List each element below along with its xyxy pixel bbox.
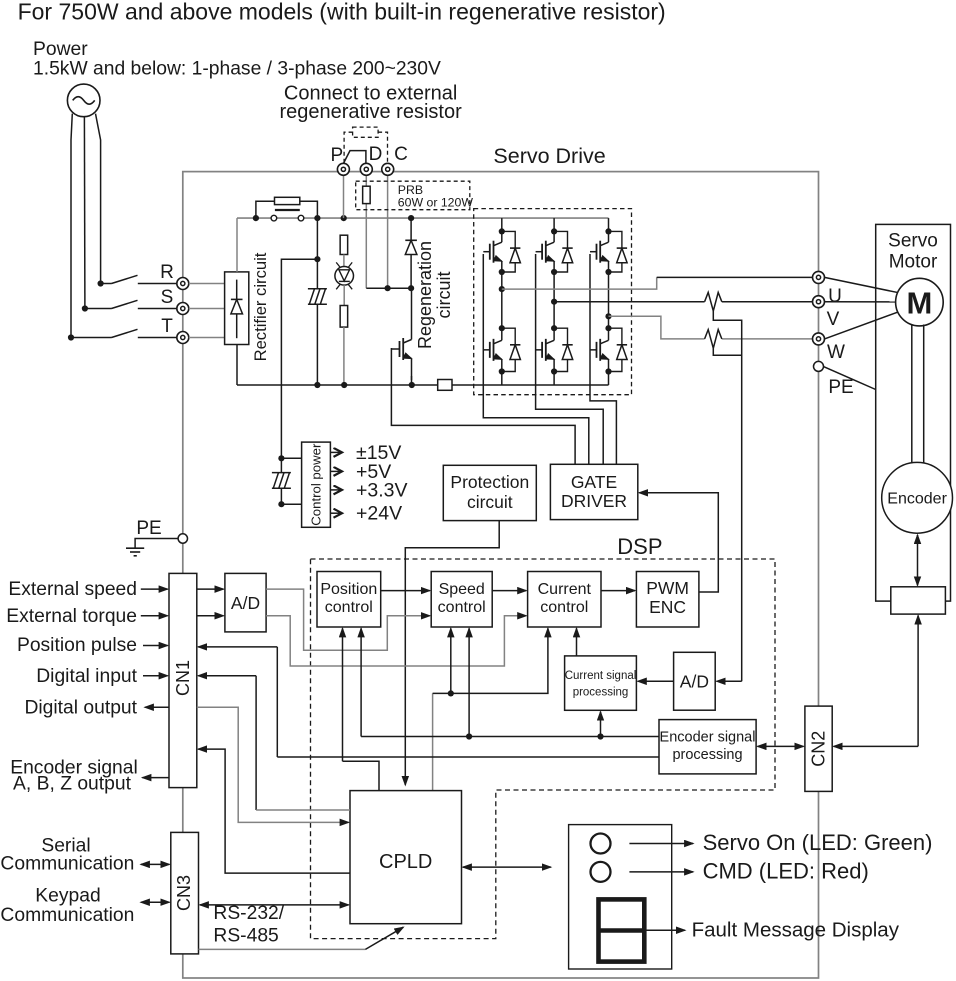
transistor upper IGBT leg 2 xyxy=(536,231,555,272)
relay contact b xyxy=(298,215,304,221)
diode upper leg 3 xyxy=(609,231,622,248)
svg-text:DSP: DSP xyxy=(617,534,662,559)
wire rectifier bottom riser xyxy=(236,345,238,386)
control power box xyxy=(302,442,331,527)
double arrow encoder proc - CN2 xyxy=(758,745,804,747)
wire CN1 to A/D row1 xyxy=(197,588,224,590)
wire inverter leg 3 top xyxy=(608,218,610,231)
arrow speed-current xyxy=(492,590,526,592)
wire encoder feedback main xyxy=(361,736,659,738)
svg-text:Servo Drive: Servo Drive xyxy=(493,144,605,168)
wire CN1 to A/D row2 xyxy=(197,615,224,617)
junction bus bleeder xyxy=(341,382,347,388)
terminal V xyxy=(813,296,825,308)
switch phase T xyxy=(68,334,74,340)
svg-text:Position pulse: Position pulse xyxy=(17,635,137,656)
wire C column xyxy=(387,175,389,288)
terminal W xyxy=(813,333,825,345)
gate driver box xyxy=(550,464,637,519)
svg-text:RS-232/: RS-232/ xyxy=(213,903,284,924)
terminal R xyxy=(177,278,189,290)
svg-text:+24V: +24V xyxy=(356,503,402,525)
svg-text:A, B, Z output: A, B, Z output xyxy=(13,774,132,795)
protection circuit box xyxy=(443,465,536,520)
svg-text:D: D xyxy=(369,144,383,165)
wire fb to current signal processing xyxy=(600,712,602,737)
diode lower leg 2 xyxy=(554,328,567,345)
external regenerative resistor (dashed) xyxy=(353,127,379,137)
current control box xyxy=(528,572,601,628)
svg-text:Rectifier circuit: Rectifier circuit xyxy=(251,252,270,361)
wire D column xyxy=(365,175,367,186)
resistor bleeder lower xyxy=(340,306,348,328)
terminal S xyxy=(177,303,189,315)
svg-text:Current: Current xyxy=(538,581,592,598)
wire fb to speed control xyxy=(468,628,470,736)
servo motor box xyxy=(876,224,951,601)
wire P column xyxy=(343,175,345,218)
LED CMD xyxy=(591,862,611,882)
relay contact bar xyxy=(275,209,300,211)
svg-text:GATE: GATE xyxy=(571,472,617,492)
wire xyxy=(343,285,345,305)
wire phase U xyxy=(502,277,657,289)
junction bus cap xyxy=(314,382,320,388)
transistor regen IGBT xyxy=(391,318,411,380)
wire phase node leg 3 xyxy=(608,272,610,328)
terminal PE output xyxy=(814,361,824,371)
wire phase V xyxy=(554,301,705,303)
wire xyxy=(280,458,282,472)
svg-text:CN1: CN1 xyxy=(173,660,193,696)
svg-text:U: U xyxy=(828,286,842,307)
svg-text:A/D: A/D xyxy=(680,672,709,692)
svg-text:Speed: Speed xyxy=(439,581,485,598)
svg-text:PWM: PWM xyxy=(646,578,689,598)
wire regen IGBT emitter to bus xyxy=(411,376,413,385)
svg-text:Power: Power xyxy=(33,39,88,60)
double arrow CPLD to LED block xyxy=(463,866,551,868)
wire CPLD to speed/current command xyxy=(432,693,434,790)
switch phase R xyxy=(98,280,104,286)
svg-text:Communication: Communication xyxy=(0,905,134,926)
wire leg 1 to DC- bus xyxy=(501,372,503,386)
terminal T xyxy=(177,332,189,344)
svg-text:Digital input: Digital input xyxy=(36,666,137,687)
wire PE xyxy=(135,539,183,548)
wire leg 3 to DC- bus xyxy=(608,372,610,386)
ground symbol xyxy=(126,547,144,549)
seven segment display xyxy=(599,899,645,961)
arrow servo on xyxy=(629,843,693,845)
svg-text:regenerative resistor: regenerative resistor xyxy=(279,101,462,123)
junction fb current xyxy=(597,733,603,739)
P-D jumper wire xyxy=(343,151,366,164)
wire D-C-diode link xyxy=(366,287,411,289)
svg-text:Digital output: Digital output xyxy=(24,698,137,719)
svg-text:W: W xyxy=(827,342,845,363)
wire xyxy=(410,218,412,240)
svg-text:Encoder: Encoder xyxy=(887,491,947,508)
diode upper leg 1 xyxy=(502,231,515,248)
wire CN2 to motor encoder connector xyxy=(834,745,919,747)
arrow sensor to A/D xyxy=(717,680,742,682)
svg-text:circuit: circuit xyxy=(434,271,454,318)
wire CPLD to position control xyxy=(342,628,344,761)
motor M circle xyxy=(896,278,944,326)
wire inverter leg 2 top xyxy=(553,218,555,231)
gray wire A/D out1 to speed control xyxy=(266,589,430,650)
AC power source xyxy=(67,84,100,117)
svg-text:control: control xyxy=(438,599,486,616)
rectifier circuit box xyxy=(225,272,249,345)
PE node circle on edge xyxy=(178,534,187,543)
resistor bleeder upper xyxy=(340,235,348,254)
svg-text:DRIVER: DRIVER xyxy=(561,491,627,511)
A/D left box xyxy=(225,573,266,632)
svg-text:V: V xyxy=(827,309,840,330)
arrow CMD xyxy=(629,871,693,873)
position control box xyxy=(317,572,381,628)
current signal processing box xyxy=(565,656,637,710)
output +24V xyxy=(330,512,341,514)
rectifier diode symbol xyxy=(231,298,243,300)
svg-text:processing: processing xyxy=(672,747,742,763)
arrow current-pwm xyxy=(601,590,635,592)
wire xyxy=(281,457,301,459)
wire gate leg3 xyxy=(590,254,616,464)
wire W to motor xyxy=(825,312,899,339)
transistor lower IGBT leg 1 xyxy=(483,328,502,371)
svg-text:Regeneration: Regeneration xyxy=(415,241,435,349)
DSP dashed region xyxy=(311,559,776,939)
wire phase node leg 2 xyxy=(553,272,555,328)
wire leg 2 to DC- bus xyxy=(553,372,555,386)
junction bus regen emitter xyxy=(409,382,415,388)
junction bus-P xyxy=(341,215,347,221)
switch phase S xyxy=(82,305,88,311)
svg-text:circuit: circuit xyxy=(467,492,513,512)
CN1 box xyxy=(169,573,197,787)
svg-text:M: M xyxy=(906,286,932,321)
wire protection to CPLD xyxy=(405,521,499,785)
arrow position pulse into CN1 xyxy=(198,646,277,648)
svg-text:Encoder signal: Encoder signal xyxy=(660,730,756,746)
resistor PRB xyxy=(363,186,371,203)
gray wire A/D out2 to current control xyxy=(266,616,526,666)
svg-text:processing: processing xyxy=(573,687,629,699)
arrow position-speed xyxy=(381,590,430,592)
wire gate leg2 xyxy=(536,254,604,464)
junction fb speed xyxy=(466,733,472,739)
wire xyxy=(343,327,345,385)
wire inverter leg 1 top xyxy=(501,218,503,231)
terminal U xyxy=(813,271,825,283)
wire PWM to gate driver xyxy=(639,493,718,592)
wire RS-485 to CPLD xyxy=(199,948,366,950)
junction bus-resistor left xyxy=(253,215,259,221)
DC- bus xyxy=(237,384,438,386)
diode upper leg 2 xyxy=(554,231,567,248)
double arrow encoder-connector xyxy=(917,535,919,585)
wire AC phase R xyxy=(96,114,101,284)
arrow A/D to current signal processing xyxy=(638,680,674,682)
wire regen IGBT collector xyxy=(411,288,413,318)
speed control box xyxy=(431,572,492,628)
svg-text:Servo: Servo xyxy=(888,231,938,252)
diode lower leg 1 xyxy=(502,328,515,345)
wire phase W xyxy=(609,316,705,339)
wire regen gate xyxy=(391,348,575,464)
capacitor control power xyxy=(272,473,291,489)
wire gate leg1 xyxy=(483,254,589,464)
junction ctrl power + xyxy=(278,455,284,461)
relay contact a xyxy=(271,215,277,221)
junction C-diode link xyxy=(408,285,414,291)
PWM ENC box xyxy=(636,572,699,628)
A/D right box xyxy=(674,652,716,710)
wire PE to motor xyxy=(824,367,876,390)
svg-text:For 750W and above models (wit: For 750W and above models (with built-in… xyxy=(18,0,666,25)
DC+ bus xyxy=(237,217,609,219)
svg-text:Control power: Control power xyxy=(309,443,324,526)
wire AC phase S xyxy=(83,117,86,309)
motor shaft lines xyxy=(911,325,913,463)
svg-text:CN3: CN3 xyxy=(174,875,194,911)
junction bus-resistor right xyxy=(314,215,320,221)
svg-text:60W or 120W: 60W or 120W xyxy=(398,195,474,209)
svg-text:P: P xyxy=(330,145,343,166)
svg-text:Fault Message Display: Fault Message Display xyxy=(692,919,900,942)
svg-text:Position: Position xyxy=(320,581,377,598)
svg-text:CPLD: CPLD xyxy=(379,851,432,873)
svg-text:Communication: Communication xyxy=(0,854,134,875)
wire to speed control bottom xyxy=(450,628,452,693)
LED display box xyxy=(569,825,672,969)
svg-text:External speed: External speed xyxy=(8,579,137,600)
wire U to motor xyxy=(825,277,899,292)
svg-text:T: T xyxy=(161,316,173,337)
encoder circle xyxy=(882,462,953,533)
transistor lower IGBT leg 3 xyxy=(590,328,609,371)
wire rectifier top riser xyxy=(236,218,238,272)
wire encoder out CPLD-CN1 xyxy=(198,749,350,873)
output ±15V xyxy=(330,451,341,453)
diode lower leg 3 xyxy=(609,328,622,345)
wire xyxy=(343,255,345,267)
wire position pulse to encoder processing xyxy=(277,756,659,758)
arrow fault display xyxy=(644,929,685,931)
svg-text:Current signal: Current signal xyxy=(565,670,637,682)
terminal D xyxy=(360,163,372,175)
wire digital input CN1 xyxy=(198,675,256,677)
diode regeneration xyxy=(405,239,417,241)
svg-text:control: control xyxy=(540,599,588,616)
svg-text:Protection: Protection xyxy=(450,472,529,492)
wires RST to rectifier xyxy=(189,283,225,285)
svg-text:PE: PE xyxy=(136,518,161,539)
wire control power tap xyxy=(281,259,317,458)
wire current sig proc to current control xyxy=(576,628,578,656)
svg-text:ENC: ENC xyxy=(649,597,686,617)
wire V to motor xyxy=(825,301,896,303)
svg-text:S: S xyxy=(161,287,174,308)
encoder signal processing box xyxy=(659,720,756,774)
svg-text:Motor: Motor xyxy=(889,252,938,273)
double arrow CN3-CPLD xyxy=(200,904,349,906)
svg-text:PE: PE xyxy=(828,377,853,398)
encoder connector box xyxy=(891,587,946,614)
servo drive enclosure box xyxy=(183,172,819,978)
svg-text:RS-485: RS-485 xyxy=(213,926,278,947)
charge lamp xyxy=(335,267,354,286)
svg-text:+3.3V: +3.3V xyxy=(356,479,408,501)
CN2 box xyxy=(805,706,832,791)
shunt resistor box xyxy=(438,380,452,391)
soft charge resistor xyxy=(256,201,275,218)
LED servo on xyxy=(591,834,611,854)
junction D-C link xyxy=(385,285,391,291)
wire phase node leg 1 xyxy=(501,272,503,328)
svg-text:1.5kW and below: 1-phase / 3-p: 1.5kW and below: 1-phase / 3-phase 200~2… xyxy=(33,59,441,80)
svg-text:Servo On (LED: Green): Servo On (LED: Green) xyxy=(703,830,933,855)
terminal C xyxy=(382,163,394,175)
svg-text:External torque: External torque xyxy=(6,606,137,627)
transistor lower IGBT leg 2 xyxy=(536,328,555,371)
svg-text:C: C xyxy=(394,144,408,165)
svg-text:control: control xyxy=(325,599,373,616)
wire DC+ column xyxy=(316,218,318,289)
svg-text:R: R xyxy=(160,262,174,283)
wire AC phase T xyxy=(71,114,72,338)
CPLD box xyxy=(350,791,462,924)
svg-text:Keypad: Keypad xyxy=(35,886,100,907)
wire digital output to CPLD xyxy=(197,707,349,822)
PRB dashed box xyxy=(356,181,470,210)
junction bus-regen diode xyxy=(408,215,414,221)
wire current sense taps to A/D xyxy=(713,311,741,681)
transistor upper IGBT leg 1 xyxy=(483,231,502,272)
output +5V xyxy=(330,470,341,472)
terminal P xyxy=(337,163,349,175)
svg-text:A/D: A/D xyxy=(231,593,260,613)
junction cmd xyxy=(448,690,454,696)
wire fb to position control xyxy=(360,628,362,736)
inverter dashed box xyxy=(474,209,632,395)
transistor upper IGBT leg 3 xyxy=(590,231,609,272)
junction ctrl power - xyxy=(278,501,284,507)
capacitor DC bus xyxy=(308,289,327,305)
wire xyxy=(410,255,412,289)
junction control power tap xyxy=(314,256,320,262)
svg-text:CN2: CN2 xyxy=(809,731,829,767)
CN3 box xyxy=(171,832,199,954)
output +3.3V xyxy=(330,489,341,491)
svg-text:CMD (LED: Red): CMD (LED: Red) xyxy=(703,859,869,884)
